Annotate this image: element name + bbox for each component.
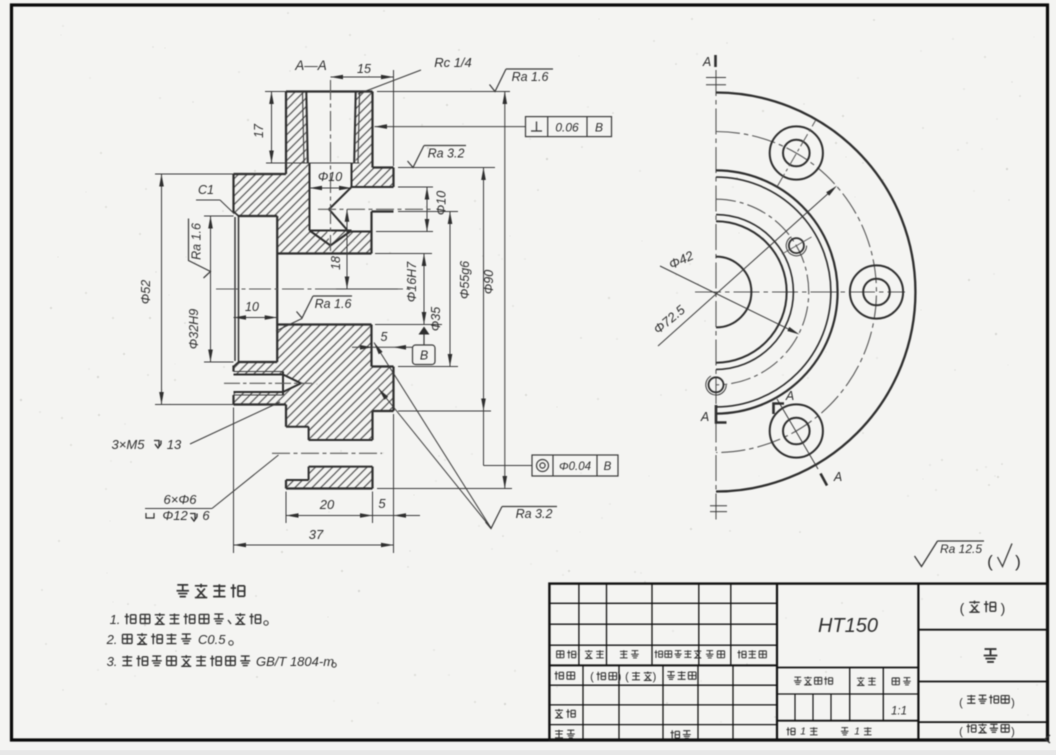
lower-left approval rows [549, 684, 777, 686]
dimension 10 recess depth [234, 317, 278, 319]
recess circle phi35 [716, 215, 793, 370]
chamfer C1 edge line [238, 216, 240, 362]
svg-text:18: 18 [329, 256, 343, 270]
recess phi32 bottom edge [239, 361, 278, 363]
symmetry marks bottom [710, 505, 727, 507]
spigot circle phi55g6 [716, 170, 838, 413]
revision header labels [557, 651, 564, 658]
centerline: vertical oil hole axis [330, 80, 332, 251]
svg-text:Ra 1.6: Ra 1.6 [315, 297, 352, 311]
svg-text:Ra 1.6: Ra 1.6 [190, 223, 204, 260]
thread end line [303, 162, 360, 164]
left face bottom segment [232, 395, 234, 405]
dimension phi90 [377, 488, 512, 490]
section view: hatched material right boss wall and spigot top [352, 92, 394, 188]
bore phi16 bottom edge [277, 323, 371, 325]
dimension 17 [265, 91, 286, 93]
svg-text:(: ( [959, 697, 963, 709]
dimension 20 [285, 492, 287, 524]
hub circle phi52 [716, 177, 831, 407]
symmetry marks top [706, 77, 726, 79]
flange left face bottom tip [285, 480, 287, 489]
flange right face lower segments [371, 467, 373, 489]
dimension phi52 [155, 173, 234, 175]
vertical phi10 drill cone [310, 231, 352, 246]
M5 hole at -30deg [789, 238, 804, 253]
svg-text:): ) [1011, 726, 1015, 738]
dimension 5 recess depth [352, 346, 413, 348]
svg-text:6×Φ6: 6×Φ6 [164, 492, 198, 507]
M5 tapped hole thin major lines [234, 371, 284, 373]
svg-text:Ra 1.6: Ra 1.6 [512, 70, 549, 84]
dimension 15 [393, 70, 395, 166]
counterbore phi12 top edge [286, 426, 309, 428]
surface finish Ra 3.2 lower with leaders [486, 507, 503, 529]
section view: hatched mid web above bore [277, 216, 371, 254]
surface finish Ra 1.6 rotated on phi32 dim [189, 219, 211, 279]
dimension 18 [336, 288, 398, 290]
horizontal phi10 hole top edge [352, 186, 394, 188]
bolt circle phi72.5 dash-dot [716, 132, 876, 453]
concentricity frame phi0.04 B [483, 411, 485, 466]
svg-text:A: A [702, 55, 711, 69]
section view: hatched lower body [234, 325, 394, 441]
svg-text:B: B [595, 121, 603, 135]
title block outer box [549, 584, 1047, 740]
svg-text:): ) [618, 671, 622, 683]
section outline: left face upper segment [232, 174, 234, 213]
svg-text:Φ10: Φ10 [318, 170, 342, 184]
recess phi35 top edge [372, 210, 394, 212]
svg-text:): ) [1011, 697, 1015, 709]
right column rows [918, 629, 1047, 631]
svg-text:): ) [1015, 552, 1021, 571]
svg-text:17: 17 [252, 123, 266, 138]
centerline: horizontal oil hole axis [318, 208, 433, 210]
dimension phi32H9 [204, 215, 234, 217]
svg-text:37: 37 [309, 527, 324, 542]
phi6 counterbored hole at -60deg [783, 140, 810, 167]
Rc1/4 thread major lines thin [303, 92, 305, 164]
dimension phi16H7 [375, 253, 432, 255]
svg-text:Ra 3.2: Ra 3.2 [428, 147, 465, 161]
flange bottom face [286, 487, 373, 489]
section view: hatched lower flange strip below bolt hole [286, 467, 373, 489]
radial tick through -60 hole [778, 121, 816, 187]
section outline: boss top face [286, 90, 373, 92]
bore circle phi16 [716, 257, 751, 328]
middle section rows [777, 667, 918, 669]
svg-text:1.: 1. [110, 612, 121, 627]
svg-text:1:1: 1:1 [891, 706, 907, 718]
part name pan [984, 649, 998, 662]
M5 hole at +90deg [709, 377, 724, 392]
section view: hatched material left/boss wall [234, 92, 310, 217]
svg-text:Φ12: Φ12 [162, 508, 188, 523]
svg-text:Φ35: Φ35 [429, 307, 443, 331]
svg-text:1: 1 [800, 726, 806, 738]
svg-text:5: 5 [378, 496, 386, 511]
svg-text:A: A [700, 410, 709, 424]
right face upper segment [392, 168, 394, 188]
svg-text:B: B [604, 461, 612, 473]
M5 tapped hole minor walls [234, 374, 284, 376]
svg-text:(: ( [987, 552, 993, 571]
surface finish Ra 1.6 top [377, 91, 510, 93]
cutting line bottom tick [821, 474, 828, 486]
vertical phi10 hole right wall [351, 163, 353, 187]
svg-text:20: 20 [319, 497, 335, 512]
svg-text:Φ0.04: Φ0.04 [559, 461, 591, 473]
svg-text:GB/T 1804-m: GB/T 1804-m [256, 654, 334, 669]
vertical phi10 hole left wall [309, 163, 311, 231]
svg-text:): ) [653, 671, 657, 683]
counterbore step wall upper [308, 427, 310, 440]
svg-text:A—A: A—A [294, 58, 327, 73]
recess circle phi32 [716, 221, 787, 362]
flange right face upper [371, 92, 373, 168]
dimension phi10 horizontal hole [398, 186, 433, 188]
left face segment below recess [232, 366, 234, 372]
dimension 5 spigot width [393, 414, 395, 553]
svg-text:Φ52: Φ52 [139, 280, 153, 304]
upper-left revision rows [549, 602, 777, 604]
phi6 counterbored hole at +60deg [783, 418, 810, 445]
radial tick through -30 M5 hole [782, 237, 812, 254]
svg-text:15: 15 [357, 62, 371, 76]
stage mark sub cells [794, 694, 796, 721]
svg-text:(: ( [590, 671, 594, 683]
recess phi35 bottom edge [372, 365, 394, 367]
centerline: M5 hole axis [224, 382, 312, 384]
svg-text:5: 5 [381, 330, 388, 344]
svg-text:C1: C1 [198, 183, 214, 197]
svg-text:(: ( [625, 671, 629, 683]
phi42 label line and arrow [660, 266, 796, 333]
svg-text:HT150: HT150 [818, 615, 878, 637]
counterbore phi12 bottom edge [286, 479, 309, 481]
svg-text:0.06: 0.06 [555, 121, 579, 135]
chamfer C1 bottom diagonal [234, 362, 239, 367]
dimension phi55g6 [483, 168, 485, 412]
svg-text:(: ( [959, 726, 963, 738]
svg-text:B: B [420, 349, 428, 363]
phi6 hole top edge [309, 439, 373, 441]
centerline: main axis [216, 288, 412, 290]
flange left face lower [285, 405, 287, 427]
recess phi35 wall lower [370, 325, 372, 367]
hub bottom face [234, 403, 287, 405]
right view vertical centerline [715, 70, 717, 521]
horizontal phi10 hole bottom edge [349, 231, 372, 233]
svg-text:A: A [833, 470, 842, 484]
title block main dividers [776, 584, 778, 740]
dimension 37 [233, 408, 235, 554]
svg-text:(: ( [960, 600, 965, 616]
svg-text:Rc 1/4: Rc 1/4 [434, 55, 472, 70]
perpendicularity frame 0.06 B [526, 117, 612, 137]
recess phi32 bottom wall [276, 216, 278, 362]
bolt circle phi42 dash-dot [716, 199, 809, 385]
phi6 hole bottom edge [309, 466, 373, 468]
svg-text:Ra 3.2: Ra 3.2 [516, 507, 553, 521]
svg-text:C0.5: C0.5 [198, 632, 226, 647]
right face lower segment [392, 367, 394, 412]
datum B triangle and box [419, 327, 430, 335]
phi72.5 label line and arrow [658, 189, 834, 346]
svg-text:13: 13 [167, 437, 182, 452]
svg-text:Φ32H9: Φ32H9 [187, 309, 201, 349]
approval labels [555, 671, 564, 680]
M5 hole end flat and drill cone [282, 372, 284, 396]
svg-text:1: 1 [854, 726, 860, 738]
cutting line top L mark [774, 404, 785, 415]
surface finish Ra 1.6 mid leader [297, 296, 314, 318]
recess phi35 wall upper [370, 212, 372, 254]
dimension phi35 [398, 211, 458, 213]
spigot bottom face [373, 410, 394, 412]
svg-text:6: 6 [202, 508, 210, 523]
vertical phi10 hole flat bottom [310, 230, 352, 232]
svg-text:Ra 12.5: Ra 12.5 [940, 542, 982, 556]
recess opening face edge line [234, 217, 236, 361]
scan artifact mark bottom right [1045, 735, 1050, 743]
svg-text:10: 10 [245, 300, 259, 314]
middle labels [794, 677, 802, 684]
counterbore step wall lower [308, 467, 310, 480]
recess phi32 top edge [239, 215, 278, 217]
chamfer C1 top diagonal [234, 212, 239, 217]
svg-text:2.: 2. [106, 632, 118, 647]
surface finish Ra 3.2 upper [398, 167, 495, 169]
bore phi16 top edge [277, 252, 371, 254]
dimension phi10 vertical hole [310, 187, 352, 189]
svg-text:): ) [1001, 600, 1006, 616]
svg-text:Φ90: Φ90 [482, 270, 496, 294]
svg-text:3×M5: 3×M5 [112, 437, 146, 452]
svg-text:Φ55g6: Φ55g6 [458, 261, 472, 299]
spigot top face [373, 166, 394, 168]
Rc1/4 thread minor walls [306, 92, 308, 164]
centerline: phi6 bolt hole axis [272, 452, 382, 454]
svg-text:A: A [785, 389, 794, 403]
scan speckle texture [349, 118, 351, 120]
general surface note Ra 12.5 [915, 541, 938, 567]
section outline: flange left face upper [285, 92, 287, 175]
section outline: hub top face [234, 173, 287, 175]
technical requirements title [177, 585, 189, 597]
svg-text:3.: 3. [107, 654, 118, 669]
svg-text:Φ16H7: Φ16H7 [405, 261, 419, 302]
outer circle phi90 [716, 93, 915, 492]
cutting line through +60 hole [777, 399, 818, 469]
phi6 counterbored hole at 0deg [863, 279, 890, 306]
right view horizontal centerline [695, 291, 905, 293]
horizontal phi10 drill cone [329, 187, 352, 232]
